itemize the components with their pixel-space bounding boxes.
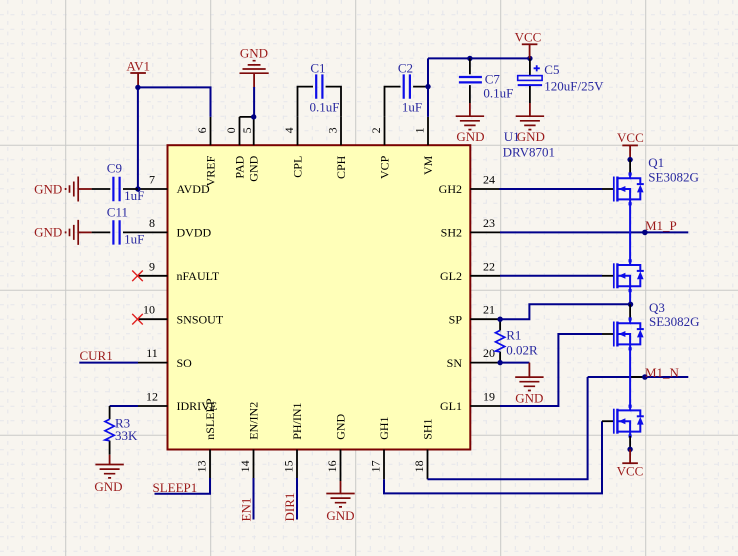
svg-text:C2: C2: [398, 60, 413, 75]
pin 22: [470, 259, 500, 276]
svg-text:8: 8: [149, 216, 155, 230]
pin 10: [138, 303, 168, 320]
ground GND left of C11: [34, 220, 91, 245]
wire SLEEP1 to pin 13: [155, 478, 211, 494]
svg-text:CUR1: CUR1: [80, 348, 113, 363]
wire VCC dot to Q1 drain: [629, 160, 631, 175]
svg-text:C11: C11: [107, 205, 128, 220]
svg-text:CPL: CPL: [290, 156, 304, 178]
svg-text:2: 2: [369, 127, 383, 133]
pin 24: [470, 173, 500, 190]
pin 18: [412, 450, 428, 480]
junction SP node: [628, 302, 633, 307]
svg-text:3: 3: [325, 127, 339, 133]
svg-text:SE3082G: SE3082G: [648, 170, 699, 185]
power port AV1: [126, 58, 150, 87]
pin 4: [282, 117, 298, 145]
pin 5: [240, 117, 254, 145]
wire SP to chain: [500, 304, 630, 319]
no-erc cross pin 9: [132, 271, 143, 282]
svg-text:U1: U1: [504, 129, 520, 144]
pin names: [177, 155, 463, 439]
pin 3: [325, 117, 341, 145]
junction AVDD: [135, 186, 140, 191]
svg-text:120uF/25V: 120uF/25V: [544, 79, 604, 94]
svg-text:GH1: GH1: [377, 416, 391, 439]
pin 15: [281, 450, 297, 479]
svg-text:9: 9: [149, 259, 155, 273]
svg-text:GND: GND: [456, 129, 484, 144]
svg-text:GND: GND: [326, 508, 354, 523]
svg-text:14: 14: [238, 460, 252, 472]
junction M1_P: [642, 230, 648, 236]
pin 12: [138, 390, 168, 407]
transistor Q1: [602, 155, 699, 205]
svg-text:18: 18: [412, 460, 426, 472]
svg-text:GND: GND: [517, 129, 545, 144]
svg-text:C1: C1: [310, 60, 325, 75]
svg-text:VCC: VCC: [617, 464, 644, 479]
svg-text:GL2: GL2: [440, 269, 462, 283]
svg-text:nFAULT: nFAULT: [177, 269, 220, 283]
svg-text:GH2: GH2: [439, 182, 462, 196]
junction Q4 VCC: [627, 447, 632, 452]
svg-text:0.1uF: 0.1uF: [483, 85, 513, 100]
svg-text:11: 11: [146, 346, 158, 360]
wire pin 24 to Q1 gate: [499, 188, 602, 190]
svg-text:C9: C9: [107, 160, 122, 175]
junction R1 top: [497, 317, 502, 322]
svg-text:GND: GND: [515, 390, 543, 405]
svg-text:GND: GND: [247, 155, 261, 181]
svg-text:GND: GND: [94, 479, 122, 494]
svg-text:22: 22: [483, 259, 495, 273]
pin 13: [194, 450, 210, 479]
pin 21: [470, 303, 500, 320]
wire pin 23 SH2 to M1_P: [500, 231, 688, 233]
ground GND left of C9: [34, 177, 91, 202]
svg-text:Q1: Q1: [648, 155, 664, 170]
ground below C5: [516, 103, 545, 144]
svg-text:15: 15: [281, 460, 295, 472]
capacitor C5 polarized: [518, 58, 604, 103]
junction C2/VM: [425, 84, 430, 89]
wire Q2 source to SP node: [629, 291, 631, 305]
junction VCC rail: [527, 56, 532, 61]
svg-text:DIR1: DIR1: [282, 493, 297, 522]
svg-text:VCP: VCP: [377, 155, 391, 179]
svg-text:GND: GND: [34, 181, 62, 196]
junction pad/gnd: [251, 114, 256, 119]
op-amp U1 main IC body DRV8701: [168, 145, 471, 449]
svg-text:6: 6: [195, 127, 209, 133]
wire VM riser: [428, 58, 530, 117]
wire SP node to Q3 drain: [629, 304, 631, 317]
svg-text:1: 1: [412, 127, 426, 133]
junction C7 tap: [467, 56, 472, 61]
pin 9: [138, 259, 168, 276]
wire Q1 source to Q2 drain: [629, 204, 631, 261]
svg-text:SLEEP1: SLEEP1: [153, 480, 198, 495]
transistor Q2: [602, 259, 644, 292]
ground below pin 16: [326, 481, 354, 523]
svg-text:GL1: GL1: [440, 399, 462, 413]
svg-text:GND: GND: [333, 413, 347, 439]
svg-text:EN1: EN1: [239, 498, 254, 522]
svg-text:DVDD: DVDD: [177, 226, 212, 240]
svg-text:CPH: CPH: [334, 155, 348, 179]
power port VCC below Q4: [617, 449, 644, 478]
wire M1_N: [588, 376, 631, 378]
pin 11: [138, 346, 168, 363]
svg-text:17: 17: [368, 460, 382, 472]
svg-text:SE3082G: SE3082G: [649, 314, 700, 329]
ground below C7: [456, 103, 485, 144]
wire Q4 source to VCC: [629, 436, 631, 449]
svg-text:0.02R: 0.02R: [506, 342, 538, 357]
svg-text:5: 5: [240, 127, 254, 133]
svg-text:1uF: 1uF: [124, 232, 144, 247]
svg-text:C7: C7: [485, 72, 501, 87]
wire gnd to pin5: [253, 87, 255, 117]
svg-text:0: 0: [224, 127, 238, 133]
svg-text:12: 12: [146, 390, 158, 404]
pin 0: [224, 117, 254, 145]
svg-text:SNSOUT: SNSOUT: [177, 312, 224, 326]
svg-text:SO: SO: [177, 356, 193, 370]
svg-text:SN: SN: [447, 356, 463, 370]
wire SN to ground: [500, 362, 529, 364]
svg-text:VM: VM: [421, 155, 435, 175]
svg-text:20: 20: [483, 346, 495, 360]
capacitor C7: [459, 58, 513, 103]
wire pin 19 to Q3 gate: [500, 334, 602, 406]
svg-text:VCC: VCC: [617, 130, 644, 145]
svg-text:SH2: SH2: [441, 226, 462, 240]
svg-text:VCC: VCC: [515, 30, 542, 45]
junction R1 bottom: [497, 360, 502, 365]
ground below SN wire: [515, 363, 543, 406]
pin 23: [470, 216, 500, 233]
svg-text:19: 19: [483, 390, 495, 404]
wire AV1 to pin6: [138, 87, 211, 117]
svg-text:10: 10: [143, 303, 155, 317]
pin 19: [470, 390, 500, 407]
svg-text:M1_P: M1_P: [645, 218, 677, 233]
wire AV1 down to AVDD: [137, 87, 139, 189]
capacitor C1: [298, 60, 342, 117]
svg-text:0.1uF: 0.1uF: [310, 100, 340, 115]
resistor R3: [105, 406, 138, 455]
svg-text:GND: GND: [240, 45, 268, 60]
pin 14: [238, 450, 254, 479]
wire pin 14 EN1: [253, 478, 255, 520]
pin 1: [412, 117, 428, 145]
svg-text:21: 21: [483, 303, 495, 317]
svg-text:SH1: SH1: [420, 418, 434, 439]
power port VCC top: [515, 30, 542, 59]
resistor R1: [496, 319, 538, 362]
pin 7: [138, 173, 168, 190]
capacitor C2: [385, 60, 429, 117]
transistor Q4: [602, 405, 644, 438]
capacitor C9: [92, 160, 145, 203]
wire CUR1 to pin 11: [79, 362, 138, 364]
svg-text:7: 7: [149, 173, 155, 187]
junction M1_N: [642, 374, 648, 380]
junction AV1 corner: [135, 85, 140, 90]
pin 2: [369, 117, 385, 145]
pin 20: [470, 346, 500, 363]
svg-text:33K: 33K: [115, 428, 138, 443]
svg-text:23: 23: [483, 216, 495, 230]
pin 16: [325, 450, 341, 482]
svg-text:PH/IN1: PH/IN1: [290, 402, 304, 439]
svg-text:EN/IN2: EN/IN2: [246, 402, 260, 440]
wire pin 15 DIR1: [296, 478, 298, 520]
svg-text:Q3: Q3: [649, 300, 665, 315]
pin 8: [138, 216, 168, 233]
svg-text:SP: SP: [449, 312, 463, 326]
svg-text:C5: C5: [544, 62, 559, 77]
no-erc cross pin 10: [132, 314, 143, 325]
svg-text:4: 4: [282, 127, 296, 133]
pin 17: [368, 450, 384, 480]
transistor Q3: [602, 300, 700, 350]
capacitor C11: [92, 205, 145, 247]
svg-text:16: 16: [325, 460, 339, 472]
pin 6: [195, 117, 211, 145]
power port VCC above Q1: [617, 130, 644, 160]
svg-text:1uF: 1uF: [402, 100, 422, 115]
junction VCC Q1: [627, 157, 632, 162]
svg-text:VREF: VREF: [203, 155, 217, 186]
svg-text:GND: GND: [34, 225, 62, 240]
ground GND above pad pins: [240, 45, 269, 87]
svg-text:13: 13: [194, 460, 208, 472]
wire Q3 source to Q4 drain: [629, 349, 631, 407]
svg-text:DRV8701: DRV8701: [503, 144, 555, 159]
wire pin 18 to M1_N riser: [428, 377, 588, 479]
svg-text:PAD: PAD: [232, 155, 246, 178]
wire IDRIVE to R3: [110, 405, 138, 407]
svg-text:24: 24: [483, 173, 495, 187]
ground below R3: [94, 455, 123, 494]
svg-text:AV1: AV1: [126, 58, 150, 73]
svg-text:1uF: 1uF: [124, 188, 144, 203]
svg-text:R1: R1: [506, 328, 521, 343]
svg-text:nSLEEP: nSLEEP: [203, 398, 217, 440]
svg-text:M1_N: M1_N: [645, 365, 680, 380]
wire pin 17 to Q4 gate: [384, 421, 602, 493]
wire pin 22 to Q2 gate: [500, 275, 602, 277]
